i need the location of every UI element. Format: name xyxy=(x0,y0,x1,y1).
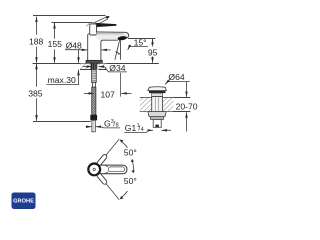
drain lower ring xyxy=(150,117,163,120)
aerator xyxy=(117,36,127,41)
svg-text:20-70: 20-70 xyxy=(176,101,198,111)
svg-text:G1: G1 xyxy=(125,123,137,133)
faucet body left edge xyxy=(87,35,89,61)
svg-text:50°: 50° xyxy=(124,176,137,186)
top view: pivot center dot xyxy=(93,168,95,170)
top view: lever inner slot xyxy=(108,167,124,172)
sketch tick at dome corner xyxy=(86,22,91,26)
Ø34 right arrow + leader xyxy=(99,66,105,68)
Ø48 left arrow xyxy=(81,49,87,51)
svg-text:Ø48: Ø48 xyxy=(66,41,82,51)
threaded rod xyxy=(92,69,97,82)
faucet handle (closed, dark lever) xyxy=(95,23,116,27)
basin deck bottom line xyxy=(140,111,191,113)
15 degree arc arrows xyxy=(116,52,119,54)
svg-text:385: 385 xyxy=(28,88,43,98)
supply tube end xyxy=(92,120,95,132)
deck hatch left xyxy=(140,98,152,112)
drain seal ring xyxy=(149,91,166,94)
drain nut xyxy=(148,112,166,117)
dimension 188 line xyxy=(36,17,38,35)
G 3/8 arrows xyxy=(86,126,92,128)
counter hatch right xyxy=(98,64,106,70)
faucet raised-handle outline xyxy=(93,17,107,23)
dimension max.30 lower arrow xyxy=(78,70,80,85)
GROHE logo xyxy=(12,193,36,210)
svg-text:Ø34: Ø34 xyxy=(109,63,125,73)
top view: lever horizontal xyxy=(97,165,127,174)
plain tube upper xyxy=(92,82,95,87)
dimension 20-70 lower arrow/line xyxy=(186,112,188,118)
water stream 15 degree xyxy=(115,40,120,60)
extension line 155 level xyxy=(52,22,93,24)
svg-text:4: 4 xyxy=(141,127,144,133)
svg-text:Ø64: Ø64 xyxy=(168,72,184,82)
water stream vertical xyxy=(120,41,122,60)
dimension max.30 upper line/arrow xyxy=(78,50,80,63)
shank through counter xyxy=(91,63,98,69)
drain tailpipe xyxy=(153,119,161,127)
faucet cartridge dome xyxy=(90,24,97,35)
braided hose xyxy=(92,87,96,115)
base/counter-top line xyxy=(33,63,159,65)
basin deck top line xyxy=(140,97,191,99)
drain cap xyxy=(148,87,167,91)
dimension 107 right arrow xyxy=(121,92,131,94)
drain neck xyxy=(152,93,163,97)
svg-text:GROHE: GROHE xyxy=(13,199,34,205)
dimension 155 line xyxy=(54,23,56,39)
dimension 385 line xyxy=(36,64,38,87)
counter bottom line xyxy=(80,69,92,71)
hose-end extension line xyxy=(33,121,91,123)
spout bottom line xyxy=(101,40,118,60)
spout top lines xyxy=(97,32,129,38)
spout slab fill xyxy=(97,32,129,40)
svg-text:107: 107 xyxy=(101,89,116,99)
deck hatch right xyxy=(163,98,174,112)
G 1 1/4 arrows xyxy=(149,129,153,131)
svg-text:95: 95 xyxy=(148,47,158,57)
svg-text:188: 188 xyxy=(29,36,44,46)
arc upper 50 xyxy=(121,141,128,148)
Ø34 left arrow xyxy=(83,66,92,68)
dimension 107 left arrow xyxy=(84,92,94,94)
svg-text:max.30: max.30 xyxy=(48,75,76,85)
top view: lever up 50 xyxy=(96,138,121,167)
counter hatch left xyxy=(80,64,92,70)
hose nut xyxy=(90,115,97,120)
arc middle double arrow xyxy=(132,160,133,172)
svg-text:50°: 50° xyxy=(124,148,137,158)
extension line aerator level (95) xyxy=(128,38,155,40)
svg-text:155: 155 xyxy=(48,39,63,49)
extension line top (handle top, y=16) xyxy=(33,15,106,17)
top view: lever down 50 xyxy=(96,172,121,201)
drain body through deck xyxy=(152,97,163,112)
top view: pivot circle xyxy=(88,164,100,176)
aerator centerline extension xyxy=(120,73,122,97)
dimension 95 line xyxy=(152,39,154,47)
Ø48 right arrow xyxy=(101,49,110,51)
body shoulder left xyxy=(88,34,90,36)
dimension 20-70 line upper xyxy=(186,82,188,97)
faucet base plate xyxy=(86,60,102,63)
arc lower 50 xyxy=(121,191,128,198)
